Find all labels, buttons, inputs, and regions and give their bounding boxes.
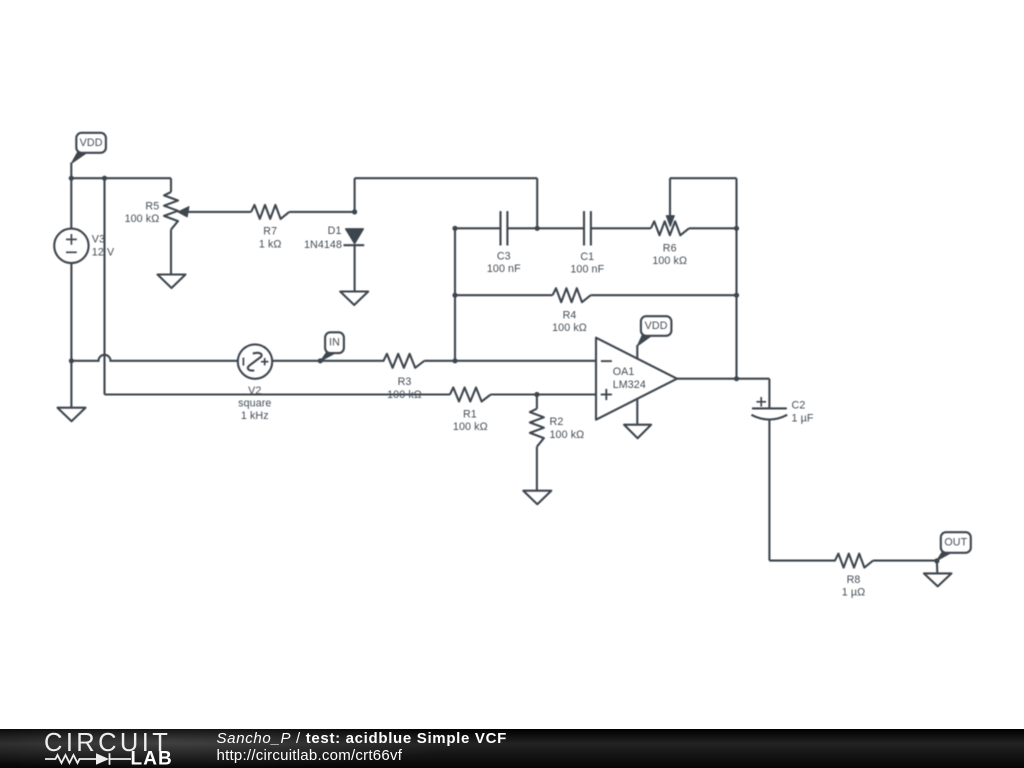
- svg-text:12 V: 12 V: [92, 246, 115, 258]
- node R6 right junction: [734, 226, 739, 231]
- svg-text:1 kΩ: 1 kΩ: [259, 238, 282, 250]
- svg-text:R6: R6: [663, 243, 677, 255]
- node C3 left junction: [535, 226, 540, 231]
- ground (R2): [523, 491, 551, 505]
- svg-text:R3: R3: [398, 376, 412, 388]
- node R2 junction: [534, 392, 539, 397]
- node VDD junction left: [69, 176, 74, 181]
- net flag OUT: [937, 552, 953, 561]
- R6 wiper arrow: [666, 216, 674, 227]
- wire right vertical: [735, 228, 737, 378]
- ground (R5): [158, 275, 186, 289]
- node R3/C3 junction: [452, 358, 457, 363]
- resistor R1: [450, 388, 491, 402]
- svg-text:R8: R8: [847, 574, 861, 586]
- voltage source V3: [54, 229, 88, 263]
- ground (OUT): [936, 561, 938, 574]
- svg-text:C2: C2: [792, 400, 806, 412]
- svg-text:LM324: LM324: [613, 379, 646, 391]
- node R4 right junction: [734, 293, 739, 298]
- R5 wiper arrow: [178, 207, 189, 217]
- wire V2 line with hop: [71, 355, 237, 361]
- resistor R4: [553, 288, 591, 302]
- svg-text:100 kΩ: 100 kΩ: [552, 322, 587, 334]
- svg-text:D1: D1: [328, 225, 342, 237]
- svg-text:1N4148: 1N4148: [304, 239, 342, 251]
- svg-text:100 kΩ: 100 kΩ: [125, 213, 160, 225]
- ground (V3): [58, 408, 86, 422]
- resistor R3: [384, 354, 425, 368]
- svg-text:R4: R4: [563, 309, 577, 321]
- wire R1 to op-amp plus: [491, 393, 596, 395]
- capacitor C1: [583, 211, 585, 245]
- svg-text:C3: C3: [497, 250, 511, 262]
- svg-text:1 kHz: 1 kHz: [241, 410, 269, 422]
- op-amp OA1: [596, 338, 677, 420]
- node R4 left junction: [452, 293, 457, 298]
- potentiometer R6: [651, 221, 689, 235]
- svg-text:100 kΩ: 100 kΩ: [453, 421, 488, 433]
- node C3 line junction: [452, 226, 457, 231]
- wire V3 top: [70, 178, 72, 228]
- svg-text:100 kΩ: 100 kΩ: [387, 389, 422, 401]
- wire C2 to R8: [768, 420, 770, 561]
- node VDD junction right: [102, 176, 107, 181]
- net flag IN: [321, 352, 338, 361]
- wire V2 right to R3: [272, 360, 384, 362]
- wire D1 top rail: [354, 178, 356, 212]
- voltage source V2 (square): [238, 344, 272, 378]
- node OUT junction: [934, 558, 939, 563]
- wire C3 line: [455, 227, 501, 229]
- svg-text:VDD: VDD: [80, 137, 103, 149]
- op-amp VDD stem: [636, 345, 638, 360]
- wire VDD rail top: [70, 163, 72, 179]
- resistor R8: [835, 554, 873, 568]
- svg-text:1 µΩ: 1 µΩ: [842, 587, 865, 599]
- svg-text:OUT: OUT: [944, 537, 967, 549]
- capacitor C2 (polarized): [752, 407, 787, 409]
- svg-text:V2: V2: [248, 385, 261, 397]
- svg-text:R2: R2: [550, 416, 564, 428]
- resistor R2: [536, 395, 538, 409]
- wire V3 bottom to ground: [70, 263, 72, 408]
- logo mini-schematic: resistor + diode: [45, 753, 131, 765]
- footer bar: [0, 729, 1024, 768]
- svg-text:LAB: LAB: [131, 749, 173, 768]
- ground (D1): [340, 292, 368, 306]
- svg-text:100 kΩ: 100 kΩ: [550, 429, 585, 441]
- node D1 junction: [352, 209, 357, 214]
- wire C3-C1: [537, 227, 584, 229]
- svg-text:VDD: VDD: [645, 320, 668, 332]
- svg-text:100 nF: 100 nF: [487, 263, 521, 275]
- wire second rail down: [103, 178, 105, 394]
- capacitor C3: [499, 211, 501, 245]
- power flag VDD (left): [71, 152, 88, 164]
- svg-text:100 kΩ: 100 kΩ: [652, 255, 687, 267]
- wire left vertical: [454, 228, 456, 360]
- svg-text:square: square: [238, 398, 271, 410]
- wire lower rail to R1: [105, 393, 451, 395]
- svg-text:OA1: OA1: [613, 366, 635, 378]
- resistor R7: [251, 205, 289, 219]
- svg-text:R1: R1: [463, 408, 477, 420]
- wire op-amp output: [677, 378, 769, 380]
- CircuitLab logo: [0, 729, 200, 768]
- diode D1: [346, 229, 364, 244]
- node IN junction: [318, 358, 323, 363]
- wire R7 to D1: [289, 211, 354, 213]
- node output junction: [734, 376, 739, 381]
- wire R3 to op-amp minus: [424, 360, 596, 362]
- svg-text:C1: C1: [580, 251, 594, 263]
- svg-text:V3: V3: [92, 234, 105, 246]
- node V3-V2 junction: [69, 358, 74, 363]
- power flag VDD (op-amp): [637, 335, 653, 346]
- svg-text:R5: R5: [145, 200, 159, 212]
- potentiometer R5: [170, 178, 172, 192]
- svg-text:IN: IN: [329, 337, 340, 349]
- svg-text:100 nF: 100 nF: [570, 264, 604, 276]
- op-amp ground stem: [636, 399, 638, 425]
- svg-text:1 µF: 1 µF: [792, 412, 814, 424]
- footer caption: [217, 730, 507, 765]
- wire R4 line: [455, 294, 553, 296]
- ground (op-amp): [624, 425, 651, 439]
- svg-text:R7: R7: [263, 226, 277, 238]
